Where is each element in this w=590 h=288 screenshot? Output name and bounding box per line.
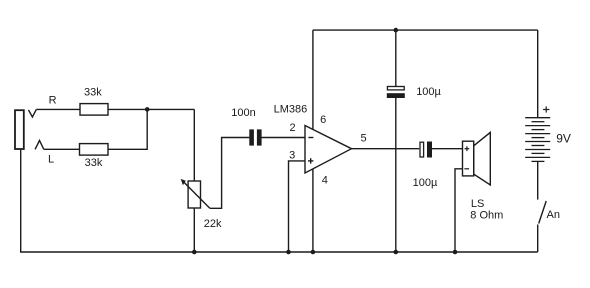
- svg-text:LS: LS: [471, 198, 484, 210]
- battery BT1 9V: [537, 30, 539, 118]
- svg-text:100µ: 100µ: [416, 86, 441, 98]
- ground rail wire: [21, 150, 538, 252]
- wire: [44, 148, 80, 150]
- node pin4 ground: [311, 250, 316, 255]
- wire: [210, 138, 250, 209]
- jack contact R: [29, 109, 37, 117]
- battery plus sign: [543, 109, 549, 111]
- wire: [395, 98, 397, 252]
- wire pin 3: [289, 161, 306, 252]
- wire: [395, 30, 397, 86]
- wire: [108, 109, 147, 149]
- svg-text:LM386: LM386: [274, 103, 308, 115]
- potentiometer wiper arrow: [184, 183, 210, 209]
- node mix junction: [145, 107, 150, 112]
- wire: [537, 161, 539, 199]
- svg-text:L: L: [48, 154, 54, 166]
- svg-text:22k: 22k: [204, 218, 222, 230]
- speaker LS: [463, 141, 474, 176]
- resistor R2 33k: [80, 144, 109, 156]
- wire: [193, 208, 195, 252]
- resistor R1 33k: [80, 104, 108, 116]
- svg-text:9V: 9V: [556, 131, 571, 145]
- svg-text:33k: 33k: [84, 87, 102, 99]
- svg-text:8 Ohm: 8 Ohm: [470, 210, 503, 222]
- node pin3 ground: [286, 250, 291, 255]
- jack contact L: [35, 141, 44, 150]
- wire pin 4: [312, 169, 314, 252]
- node bypass ground: [394, 250, 399, 255]
- svg-text:2: 2: [289, 122, 295, 134]
- wire output pin 5: [352, 148, 420, 150]
- svg-text:4: 4: [322, 174, 328, 186]
- wire: [36, 108, 80, 110]
- svg-text:R: R: [49, 94, 57, 106]
- capacitor C1 100n: [249, 129, 254, 145]
- svg-text:100n: 100n: [231, 107, 255, 119]
- wire: [262, 137, 306, 139]
- jack plug J1: [15, 110, 24, 149]
- wire: [537, 225, 539, 253]
- node top rail: [394, 28, 399, 33]
- wire: [193, 109, 195, 181]
- node speaker ground: [453, 250, 458, 255]
- svg-text:33k: 33k: [85, 157, 103, 169]
- wire: [455, 169, 463, 252]
- svg-text:6: 6: [320, 114, 326, 126]
- svg-text:An: An: [547, 209, 560, 221]
- capacitor C2 100u bypass: [387, 87, 404, 90]
- op-amp U1 LM386: [305, 126, 352, 174]
- potentiometer P1 22k: [188, 181, 200, 208]
- top supply rail wire: [313, 29, 538, 31]
- wire: [108, 108, 194, 110]
- svg-text:5: 5: [361, 133, 367, 145]
- svg-text:3: 3: [289, 149, 295, 161]
- svg-text:100µ: 100µ: [413, 177, 438, 189]
- wire: [432, 148, 463, 150]
- switch S1 An: [539, 201, 547, 224]
- wire pin 6: [312, 30, 314, 130]
- capacitor C3 100u coupling: [420, 142, 424, 157]
- node pot ground: [192, 250, 197, 255]
